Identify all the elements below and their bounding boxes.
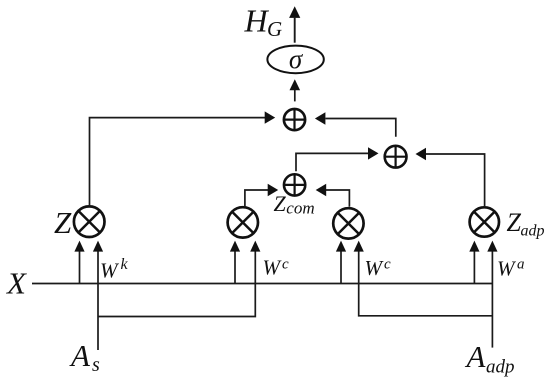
sigma activation ellipse <box>267 44 323 74</box>
wire sigma to output H_G <box>289 6 300 42</box>
wire multiplier 4 to adder B <box>416 148 485 207</box>
node Z_com label <box>274 191 315 218</box>
svg-text:σ: σ <box>289 44 304 74</box>
wire A_s branch into multiplier 2 <box>98 241 260 317</box>
svg-text:a: a <box>517 256 525 272</box>
svg-text:s: s <box>92 354 100 376</box>
wire adder B to adder A <box>315 112 396 137</box>
svg-text:Z: Z <box>274 191 287 216</box>
svg-text:adp: adp <box>521 223 545 240</box>
svg-text:A: A <box>69 338 91 373</box>
svg-text:adp: adp <box>486 357 515 378</box>
svg-text:H: H <box>244 2 270 38</box>
svg-text:Z: Z <box>54 205 72 240</box>
weight label W^a <box>497 256 525 280</box>
svg-text:k: k <box>121 256 129 273</box>
wire left stem into multiplier 1 <box>74 241 84 284</box>
adder node C (Z_com) <box>284 174 305 195</box>
wire left stem into multiplier 2 <box>230 241 240 284</box>
svg-text:A: A <box>465 339 487 374</box>
wire A_adp vertical into multiplier 4 <box>487 241 497 348</box>
svg-text:Z: Z <box>507 208 522 237</box>
wire A_s vertical into multiplier 1 <box>93 241 103 350</box>
svg-text:W: W <box>365 256 385 280</box>
svg-text:W: W <box>263 255 283 279</box>
svg-text:com: com <box>286 199 314 218</box>
multiplier node 1 (Z) <box>74 206 105 237</box>
wire multiplier 2 to adder C <box>245 184 278 207</box>
wire A_adp branch into multiplier 3 <box>354 241 493 316</box>
multiplier node 3 <box>333 208 363 238</box>
svg-text:c: c <box>384 256 391 272</box>
adder node B <box>385 146 407 168</box>
adder node A <box>284 109 305 130</box>
svg-text:X: X <box>5 266 27 301</box>
wire adder A to sigma <box>290 79 301 101</box>
weight label W^k <box>100 256 129 283</box>
svg-text:G: G <box>267 17 282 41</box>
wire adder C to adder B <box>296 147 379 171</box>
wire left stem into multiplier 3 <box>336 241 346 284</box>
wire multiplier 3 to adder C <box>316 184 350 207</box>
node H_G label <box>244 2 283 41</box>
wire left stem into multiplier 4 <box>469 241 479 284</box>
svg-text:c: c <box>282 256 289 272</box>
svg-text:W: W <box>497 257 517 281</box>
wire multiplier 1 to adder A <box>90 111 276 206</box>
svg-text:W: W <box>100 259 120 283</box>
weight label W^c first <box>263 255 290 279</box>
wire X bus line <box>32 283 492 285</box>
node Z_adp label <box>507 208 545 240</box>
multiplier node 2 <box>228 207 258 237</box>
multiplier node 4 <box>470 207 499 236</box>
node A_adp label <box>465 339 515 378</box>
weight label W^c second <box>365 256 392 280</box>
node A_s label <box>69 338 100 376</box>
